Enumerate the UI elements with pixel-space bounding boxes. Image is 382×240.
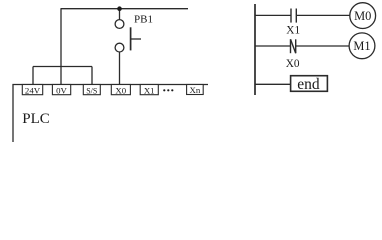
svg-text:X1: X1 (144, 85, 155, 95)
contact X1 (normally open) (291, 9, 296, 23)
wire: top supply line (61, 8, 189, 10)
svg-text:Xn: Xn (190, 85, 201, 95)
svg-text:24V: 24V (25, 85, 41, 95)
label ellipsis between X1 and Xn (163, 89, 173, 91)
wire: rung 2 left segment (255, 45, 291, 47)
wire: rung 1 left segment (255, 14, 291, 16)
svg-text:X1: X1 (286, 25, 300, 37)
svg-text:X0: X0 (115, 85, 126, 95)
terminal X1 (140, 85, 158, 96)
wire: rung 2 right segment (296, 45, 349, 47)
coil M0 (350, 3, 376, 29)
svg-text:M1: M1 (353, 39, 370, 53)
contact X0 (normally closed) (291, 39, 296, 53)
svg-text:S/S: S/S (86, 86, 97, 95)
svg-text:end: end (297, 76, 320, 93)
svg-text:M0: M0 (354, 9, 371, 23)
svg-text:X0: X0 (286, 58, 300, 70)
wire: rung 1 right segment (296, 14, 350, 16)
left power rail of ladder (254, 4, 256, 95)
pushbutton PB1 (115, 20, 141, 52)
coil M1 (349, 33, 375, 59)
terminal X0 (111, 85, 130, 96)
wire: bridge 24V to S/S (33, 66, 92, 68)
wire: left vertical drop to 0V terminal (60, 9, 62, 85)
wire: rung 3 segment (255, 83, 291, 85)
END instruction box (291, 76, 328, 93)
PLC box (open right/bottom) (13, 85, 208, 143)
terminal 24V (22, 85, 42, 96)
svg-text:PB1: PB1 (134, 14, 153, 26)
terminal Xn (187, 85, 204, 96)
wire: PB1 bottom lead to X0 terminal (119, 52, 121, 85)
terminal 0V (52, 85, 70, 96)
terminal S/S (83, 85, 100, 96)
wire: 24V riser (32, 67, 34, 85)
node: junction dot on top line (117, 6, 122, 11)
svg-text:PLC: PLC (22, 111, 50, 127)
wire: PB1 top lead (119, 9, 121, 20)
wire: S/S riser (91, 67, 93, 85)
svg-text:0V: 0V (56, 85, 67, 95)
